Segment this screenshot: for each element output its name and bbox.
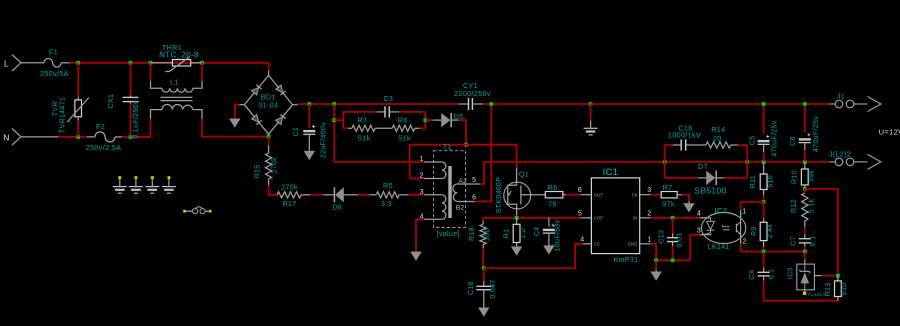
wire CX top lead <box>763 252 765 268</box>
bridge BD1 diamond <box>244 75 292 134</box>
capacitor C18 top pin <box>483 281 485 286</box>
ground arrow C18 <box>478 308 489 317</box>
wire R4 to right side <box>420 127 426 129</box>
resistor R11 <box>760 174 767 190</box>
wire CX1 bottom lead <box>130 104 132 137</box>
svg-text:2: 2 <box>742 239 746 246</box>
svg-text:IC2: IC2 <box>715 206 728 215</box>
wire IC2 pin2 down <box>740 244 742 252</box>
transformer T1 winding A2-B2 <box>453 184 457 202</box>
fuse F2 left lead <box>87 136 95 138</box>
capacitor C7 bottom pin <box>804 243 806 247</box>
wire N port lead <box>21 136 58 138</box>
pad 1 stem <box>119 179 121 186</box>
svg-text:N: N <box>3 133 10 143</box>
transistor Q1 body <box>504 182 531 209</box>
IC2 pin3 stub <box>700 234 712 236</box>
svg-text:01-04: 01-04 <box>258 101 278 110</box>
wire DC+ rail <box>298 103 459 105</box>
capacitor C7 top pin <box>804 234 806 238</box>
svg-text:IC1: IC1 <box>603 167 619 178</box>
wire rail to bridge top <box>268 63 270 71</box>
svg-text:1: 1 <box>742 208 746 215</box>
svg-text:SB5100: SB5100 <box>694 186 726 196</box>
capacitor C5 stem <box>763 144 765 152</box>
svg-text:TL431A: TL431A <box>808 292 827 297</box>
svg-text:R1: R1 <box>504 229 511 239</box>
svg-text:U=12V: U=12V <box>879 128 900 137</box>
svg-text:R3: R3 <box>357 115 367 124</box>
resistor R14 right lead <box>731 144 738 146</box>
IC1 pin3 stub <box>640 194 651 196</box>
resistor R13 top lead <box>837 276 839 281</box>
wire D5 to clamp rail <box>459 120 467 145</box>
junction IC3 ref node <box>836 274 840 278</box>
wire L port lead <box>21 62 44 64</box>
resistor R18 bottom lead <box>482 245 484 248</box>
wire T1 pin2 net <box>410 178 424 180</box>
optocoupler IC2 led <box>705 218 715 234</box>
shunt regulator IC3 box <box>797 264 815 290</box>
ground earth primary <box>584 127 598 129</box>
transformer T1 winding 1-2 <box>442 162 446 179</box>
inductor L1 bottom-left lead <box>151 110 163 119</box>
node J(L2)2 port <box>830 154 881 169</box>
varistor TVR top pin <box>77 97 79 100</box>
svg-text:OUT: OUT <box>594 193 603 198</box>
resistor R10 <box>801 169 808 185</box>
wire N rail right <box>122 119 151 137</box>
diode D6 right... left lead <box>324 194 334 196</box>
ground arrow IC1 GND <box>650 272 661 281</box>
wire source row <box>483 217 580 219</box>
junction THR1 right / L1 out <box>200 61 204 65</box>
svg-text:LK141: LK141 <box>708 244 730 251</box>
capacitor C5 <box>758 140 770 142</box>
svg-text:4: 4 <box>697 211 701 218</box>
transformer T1 pin2 lead <box>424 178 442 180</box>
capacitor CY1 <box>468 98 470 110</box>
diode D5 left lead <box>433 119 441 121</box>
capacitor CX top pin <box>763 268 765 273</box>
svg-text:270k: 270k <box>281 183 298 192</box>
svg-text:C5: C5 <box>750 136 757 146</box>
thermistor THR1 diagonal <box>165 57 189 72</box>
wire R3-R4 link <box>375 127 392 129</box>
svg-text:R10: R10 <box>792 170 799 184</box>
wire R18 top <box>482 218 484 221</box>
pad 3 stem <box>151 179 153 186</box>
fuse F2 <box>95 132 115 142</box>
svg-text:B2: B2 <box>456 205 465 212</box>
transformer T1 pin5 lead <box>457 183 480 185</box>
resistor R4 <box>392 125 415 131</box>
wire bridge minus <box>235 105 240 119</box>
capacitor C4 <box>543 229 555 231</box>
jumper JP1 <box>193 209 198 214</box>
wire secondary output rail <box>484 161 830 163</box>
svg-text:3: 3 <box>647 187 651 194</box>
wire loop left side <box>664 145 666 178</box>
diode D6 <box>335 187 344 202</box>
capacitor C1 <box>303 130 315 132</box>
ground earth pad 3 <box>145 186 159 188</box>
capacitor CX <box>758 271 770 273</box>
svg-text:3: 3 <box>697 228 701 235</box>
junction snubber right tee <box>423 118 427 122</box>
svg-text:5.1k: 5.1k <box>809 199 816 214</box>
fuse F2 right lead <box>115 136 122 138</box>
capacitor C13 top pin <box>672 233 674 238</box>
node N input port <box>12 129 21 146</box>
inductor L1 top-left lead <box>151 81 163 88</box>
earth stem <box>590 121 592 128</box>
inductor L1 bottom winding <box>162 104 193 109</box>
resistor R1 bottom lead <box>516 243 518 247</box>
svg-text:C1: C1 <box>293 127 300 137</box>
svg-text:CC: CC <box>594 242 600 247</box>
transistor Q1 drain lead <box>516 168 518 186</box>
svg-text:4: 4 <box>580 236 584 243</box>
resistor R18 top lead <box>482 221 484 224</box>
capacitor C7 <box>799 238 811 240</box>
fuse F1 <box>44 59 61 68</box>
wire C6 top lead <box>804 104 806 132</box>
junction CY1 right / drop <box>489 102 493 106</box>
jumper right lead <box>205 210 209 212</box>
capacitor C4 top lead <box>548 218 550 227</box>
wire R17-D6 lead a <box>301 194 310 196</box>
junction THR1 left / L1 in <box>149 61 153 65</box>
thermistor THR1 body <box>172 60 190 66</box>
IC1 pin2 stub <box>640 217 651 219</box>
resistor R3 left lead <box>348 127 352 129</box>
svg-text:97k: 97k <box>662 199 675 208</box>
transistor Q1 source lead <box>516 209 518 216</box>
ground arrow C4 <box>543 245 554 254</box>
varistor TVR bottom pin <box>77 117 79 121</box>
svg-text:810: 810 <box>841 282 848 295</box>
wire C3 branch right <box>399 111 425 113</box>
junction GND rail left <box>654 258 658 262</box>
optocoupler IC2 phototransistor <box>740 213 742 243</box>
resistor R15 top lead <box>268 146 270 154</box>
junction earth tap <box>589 102 593 106</box>
svg-text:250v/2.5A: 250v/2.5A <box>86 143 122 152</box>
shunt regulator IC3 zener <box>804 264 806 271</box>
junction Q1 source node <box>515 216 519 220</box>
svg-text:75: 75 <box>548 199 557 208</box>
capacitor C4 stem <box>548 233 550 245</box>
svg-text:6: 6 <box>472 195 476 202</box>
wire C13 top lead <box>672 218 674 233</box>
resistor R3 <box>352 125 375 131</box>
svg-text:CX1: CX1 <box>108 94 115 109</box>
wire R9 to bottom rail <box>763 247 765 252</box>
svg-text:C4: C4 <box>534 226 541 236</box>
wire C18 top lead <box>483 268 485 281</box>
junction C5 bottom / R11 top <box>762 160 766 164</box>
svg-text:R7: R7 <box>662 183 672 192</box>
svg-text:R12: R12 <box>791 199 798 213</box>
varistor TVR diagonal <box>67 98 89 122</box>
resistor R5 left lead <box>369 194 376 196</box>
pad mounting hole 1 <box>118 176 121 179</box>
capacitor C16 <box>680 139 682 150</box>
wire L1 top-right riser <box>201 63 203 81</box>
svg-text:F2: F2 <box>96 122 105 131</box>
resistor R1 top lead <box>516 218 518 225</box>
capacitor CY1 left lead <box>459 103 469 105</box>
resistor R6 right pin <box>563 194 566 196</box>
svg-text:2200/250v: 2200/250v <box>454 89 491 98</box>
svg-text:2: 2 <box>647 210 651 217</box>
wire R6 to IC1 OUT <box>566 194 581 196</box>
capacitor C3 <box>384 106 386 117</box>
svg-text:[value]: [value] <box>437 231 460 238</box>
junction D5 drop on clamp rail <box>464 143 468 147</box>
pad jumper right <box>209 210 212 213</box>
wire CX1 top lead <box>130 63 132 96</box>
svg-text:R5: R5 <box>383 181 393 190</box>
capacitor C3 left lead <box>377 111 385 113</box>
transformer T1 pin1 lead <box>424 161 442 163</box>
wire C6 bottom lead <box>804 150 806 162</box>
wire IC3 ref to node <box>822 275 838 277</box>
wire earth lead <box>590 104 592 121</box>
diode D6 right lead <box>344 194 359 196</box>
wire pin5 riser <box>480 162 484 184</box>
svg-text:R17: R17 <box>282 199 296 208</box>
ground arrow R1 <box>511 247 522 256</box>
wire CX bottom to R13 <box>764 281 839 301</box>
junction snubber left tee <box>332 118 336 122</box>
junction CX1 bottom <box>129 135 133 139</box>
pad IC3 cathode <box>803 292 806 295</box>
wire TVR top lead <box>77 63 79 97</box>
junction opto anode node <box>762 200 766 204</box>
svg-text:C13: C13 <box>658 230 665 244</box>
resistor R12 bottom lead <box>804 221 806 227</box>
svg-text:C7: C7 <box>791 236 798 246</box>
resistor R12 <box>802 193 808 221</box>
capacitor C6 stem <box>804 143 806 150</box>
ground arrow T1 pin4 <box>410 252 421 261</box>
svg-text:390: 390 <box>485 228 492 241</box>
pad mounting hole 3 <box>151 176 154 179</box>
svg-text:R6: R6 <box>548 183 558 192</box>
diode D7 <box>706 171 715 185</box>
capacitor CX bottom pin <box>763 276 765 281</box>
capacitor CY1 right lead <box>472 103 483 105</box>
transformer T1 pin6 lead <box>457 201 475 203</box>
wire R17-D6 red <box>310 194 324 196</box>
resistor R11 top lead <box>763 162 765 174</box>
wire pin6 to vertical <box>475 104 492 202</box>
svg-text:C6: C6 <box>790 136 797 146</box>
resistor R4 right lead <box>415 127 420 129</box>
wire secondary top rail <box>591 103 830 105</box>
resistor R5 right lead <box>399 194 409 196</box>
junction TVR bottom <box>76 135 80 139</box>
resistor R14 <box>706 142 731 148</box>
wire GND rail <box>656 259 690 261</box>
wire C5 top lead <box>763 104 765 134</box>
diode D5 <box>441 113 450 127</box>
jumper left lead <box>186 210 193 212</box>
svg-text:22uF/400v: 22uF/400v <box>321 122 328 158</box>
wire R7 to arrow <box>682 195 689 202</box>
svg-text:Q1: Q1 <box>519 170 529 179</box>
capacitor CX1 top pin <box>130 96 132 98</box>
svg-text:J(L2)2: J(L2)2 <box>829 150 851 159</box>
thermistor THR1 left lead <box>151 62 173 64</box>
wire R15 to R17 <box>269 185 278 195</box>
capacitor C1 stem <box>308 134 310 151</box>
bridge BD1 top lead <box>268 71 270 76</box>
IC2 pin1 stub <box>740 211 742 218</box>
svg-text:F1: F1 <box>49 48 58 57</box>
resistor R9 bottom lead <box>763 241 765 248</box>
svg-text:250v/5A: 250v/5A <box>40 69 69 78</box>
wire node to IC2 pin1 <box>741 202 764 211</box>
wire Q1 source <box>516 216 518 218</box>
wire GND arrow lead <box>655 260 657 269</box>
capacitor C6 <box>799 138 811 140</box>
bridge diode D4 bottom-right <box>276 114 286 124</box>
capacitor C16 left lead <box>673 144 681 146</box>
resistor R18 <box>480 224 486 244</box>
IC1 pin5 stub <box>581 217 592 219</box>
svg-text:10uF/50v: 10uF/50v <box>554 219 561 251</box>
wire C3 branch left <box>343 111 377 113</box>
svg-text:FB: FB <box>632 193 638 198</box>
capacitor CX1 <box>123 96 139 98</box>
svg-text:IC3: IC3 <box>788 267 795 279</box>
svg-text:1.2: 1.2 <box>520 228 527 239</box>
svg-text:GND: GND <box>628 242 638 247</box>
capacitor C13 bottom pin <box>672 242 674 246</box>
svg-text:3: 3 <box>420 189 424 196</box>
svg-text:C3: C3 <box>383 94 393 103</box>
wire D7 row right <box>724 177 747 179</box>
wire IC1 GND <box>650 244 656 260</box>
inductor L1 core line 1 <box>161 96 193 98</box>
wire C13 bottom lead <box>672 246 674 260</box>
capacitor CX1 bottom pin <box>130 102 132 104</box>
svg-text:IN: IN <box>633 216 637 221</box>
junction C5 top <box>762 102 766 106</box>
wire clamp rail <box>410 144 517 146</box>
wire N rail left <box>58 136 87 138</box>
bridge diode D2 top-right <box>276 85 286 95</box>
capacitor C3 right lead <box>389 111 399 113</box>
wire C16 row left <box>665 144 673 146</box>
wire IC1 CC to C18 rail <box>484 244 583 268</box>
ground earth pad 2 <box>129 186 143 188</box>
thermistor THR1 right lead <box>191 62 202 64</box>
svg-text:0.1: 0.1 <box>768 269 775 280</box>
svg-text:TVR: TVR <box>53 101 60 116</box>
pad 4 stem <box>168 179 170 186</box>
svg-text:CX: CX <box>749 269 756 279</box>
resistor R17 <box>277 192 301 198</box>
junction bridge AC bottom <box>267 135 271 139</box>
wire T1 pin1 net <box>334 161 424 163</box>
wire CY1 to earth rail <box>483 103 590 105</box>
junction snubber riser top <box>332 102 336 106</box>
svg-text:51k: 51k <box>358 134 371 143</box>
transformer T1 winding 3-4 <box>442 195 446 220</box>
junction C6 bottom / R10 top <box>803 160 807 164</box>
IC3 top pin <box>804 260 806 265</box>
wire bridge bottom to R15 <box>268 136 270 145</box>
R7 arrow stem <box>688 201 690 203</box>
resistor R15 bottom lead <box>268 179 270 185</box>
svg-text:0.1: 0.1 <box>810 236 817 247</box>
svg-text:470uF/25v: 470uF/25v <box>772 120 779 156</box>
svg-text:J1: J1 <box>837 91 845 100</box>
svg-text:0.1uF/250v: 0.1uF/250v <box>133 100 140 139</box>
resistor R1 <box>513 224 520 242</box>
svg-text:1: 1 <box>420 156 424 163</box>
bridge BD1 left lead <box>240 104 245 106</box>
pad mounting hole 4 <box>168 176 171 179</box>
wire tee to D5 <box>425 119 433 121</box>
ground arrow R7 net <box>683 203 694 212</box>
wire IC1 FB to R7 <box>650 194 661 196</box>
inductor L1 core line 2 <box>161 100 193 102</box>
junction C7 bottom / IC3 top <box>803 250 807 254</box>
svg-text:R11: R11 <box>750 175 757 188</box>
pad mounting hole 2 <box>135 176 138 179</box>
node J1 port <box>830 97 881 112</box>
wire TVR bottom lead <box>77 121 79 137</box>
resistor R9 top lead <box>763 219 765 223</box>
svg-text:1000/1kV: 1000/1kV <box>668 131 701 140</box>
ground earth pad 4 <box>162 186 176 188</box>
diode D7 left lead <box>698 177 706 179</box>
transformer T1 boundary <box>434 151 466 228</box>
resistor R15 <box>266 153 272 179</box>
wire drain riser <box>516 145 518 168</box>
wire R18 to C18 node <box>482 248 484 268</box>
wire D7 row left <box>665 177 698 179</box>
resistor R5 <box>376 192 399 198</box>
bridge diode D3 bottom-left <box>252 115 262 125</box>
junction R10 bottom <box>803 187 807 191</box>
GND arrow stem <box>655 270 657 272</box>
svg-text:KmP31: KmP31 <box>614 257 639 264</box>
svg-text:TVR14471: TVR14471 <box>60 97 67 133</box>
junction C6 top <box>803 102 807 106</box>
inductor L1 top winding <box>162 88 193 92</box>
svg-text:COP: COP <box>594 216 603 221</box>
svg-text:R15: R15 <box>254 164 261 178</box>
wire C1 top lead <box>308 104 310 128</box>
junction C13 top <box>671 216 675 220</box>
svg-text:R14: R14 <box>711 125 725 134</box>
wire C16 row right <box>738 144 747 146</box>
wire snubber left side <box>342 112 344 128</box>
svg-text:0.01: 0.01 <box>676 232 683 247</box>
IC2 pin2 stub <box>740 239 742 244</box>
svg-text:R4: R4 <box>398 115 408 124</box>
svg-text:20: 20 <box>713 134 722 143</box>
node L input port <box>12 55 21 72</box>
wire R12 to C7 <box>804 227 806 234</box>
wire IC3 top lead <box>804 252 806 260</box>
